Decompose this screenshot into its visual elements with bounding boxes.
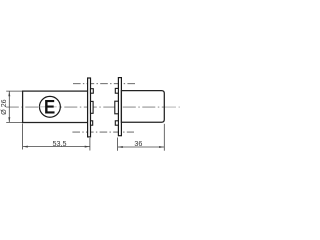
svg-text:E: E [44,96,55,117]
left flange top tab [91,89,94,94]
right flange bottom tab [115,121,118,125]
centerline axis [6,106,165,108]
left flange middle tab [91,101,94,113]
right view flange plate [118,78,121,136]
dimension 53,5 extension line right [89,138,91,151]
dimension Ø26 extension line top [6,90,22,92]
svg-text:36: 36 [134,139,142,148]
tab pitch line top [73,83,135,85]
left view flange plate [88,78,91,137]
right view body (cylinder, chamfered) [121,91,164,123]
left flange bottom tab [91,121,93,125]
svg-text:Ø 26: Ø 26 [0,99,8,115]
dimension 53,5 extension line left [22,124,24,150]
right flange top tab [115,88,118,93]
right flange middle tab [115,101,119,114]
keyhole circle [39,96,60,117]
dimension Ø26 extension line bottom [6,121,22,123]
dimension 36 dimension line with arrows [118,146,164,148]
dimension 36 extension line left [117,138,119,151]
dimension 36 extension line right [163,124,165,151]
dimension 53,5 dimension line with arrows [23,146,90,148]
centerline axis tail [165,106,181,108]
dimension Ø26 dimension line with arrows [8,91,10,122]
left view body (cylinder housing) [23,91,88,122]
svg-text:53,5: 53,5 [53,139,67,148]
centerline through circle [40,106,61,108]
tab pitch line bottom [72,131,134,133]
